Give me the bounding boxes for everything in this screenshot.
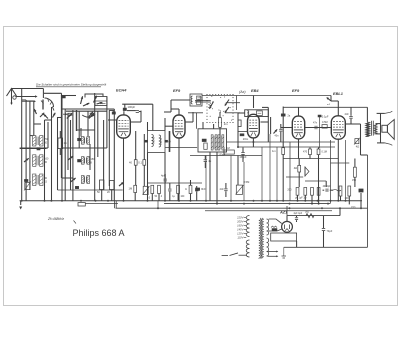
IF transformer T3 frame — [245, 110, 269, 117]
resistor R25 diag — [354, 138, 360, 149]
svg-text:145V: 145V — [237, 228, 243, 232]
label tube V4 EF9 — [292, 88, 300, 93]
wire T4 bottom — [210, 152, 217, 204]
svg-text:1kΩ: 1kΩ — [305, 212, 309, 214]
speaker LS1 cone — [387, 120, 394, 140]
wire arrow a2 — [22, 100, 36, 102]
wire v 244r — [243, 162, 245, 201]
wire v 345.5 — [345, 140, 347, 201]
wire B+ drop — [339, 208, 341, 215]
capacitor C31 blob — [37, 148, 40, 150]
trimmer arrow S2a — [68, 156, 73, 160]
svg-text:4000pF: 4000pF — [323, 185, 332, 188]
wire long anode rail — [283, 107, 367, 122]
resistor R6 w label — [138, 134, 145, 186]
svg-text:1m: 1m — [272, 149, 276, 153]
wire AZ1 bottom — [286, 231, 288, 234]
wire block1 horizontals — [22, 100, 52, 148]
svg-text:30: 30 — [44, 161, 47, 164]
wire V5 plate — [345, 124, 360, 155]
IF transformer T2 frame — [148, 131, 166, 153]
wire h142 — [227, 141, 335, 143]
svg-text:AJ20: AJ20 — [198, 99, 204, 102]
tube V6 AZ1 — [282, 221, 293, 233]
svg-text:0.1M: 0.1M — [322, 151, 327, 154]
wire v 330.5 — [331, 140, 350, 204]
wire bus 3 — [116, 207, 368, 209]
resistor R11 — [177, 185, 180, 201]
wire bus to AZ1 — [286, 206, 288, 216]
power transformer T6 core — [259, 218, 263, 258]
svg-text:4μ: 4μ — [208, 159, 211, 163]
wire V4 bottom — [298, 139, 300, 159]
wire V1 top cap — [122, 104, 153, 130]
resistor R9 — [151, 185, 154, 201]
svg-text:150: 150 — [352, 179, 357, 182]
svg-text:15: 15 — [44, 181, 47, 184]
svg-text:70μF: 70μF — [327, 230, 333, 233]
wire V1 bottom — [123, 138, 125, 201]
svg-text:0.3: 0.3 — [147, 197, 151, 199]
switch blade det — [274, 129, 278, 133]
resistor R14 1M — [224, 146, 234, 154]
trimmer C1 arrow — [24, 158, 29, 162]
wire bus 2a — [85, 202, 118, 204]
fuse F1 on bus — [78, 203, 85, 206]
coil L5 — [82, 157, 90, 165]
wire T2 bottom leads — [148, 153, 166, 201]
junction dots buses — [21, 200, 362, 209]
wire bus 4 — [205, 210, 332, 212]
resistor R27 — [339, 186, 342, 201]
wire T3 leads — [238, 113, 245, 147]
coil T2 secondary — [159, 135, 163, 147]
wire shield double h — [195, 100, 211, 102]
capacitor C23 dark — [359, 189, 363, 208]
coil T3 — [247, 111, 249, 116]
wire V3 bottom — [237, 132, 254, 149]
wire v270 up — [270, 117, 272, 134]
trimmer arrow S2c — [71, 178, 76, 182]
wire couple — [305, 127, 332, 129]
wire T4 top stubs — [203, 122, 214, 129]
wire speaker bottom — [376, 134, 385, 143]
wire coupling arrow — [16, 95, 38, 97]
wire block1 heavy junction — [20, 147, 47, 149]
svg-text:1μ: 1μ — [172, 196, 175, 198]
resistor R21 row — [304, 188, 307, 201]
capacitor C29 blob — [78, 159, 81, 162]
svg-text:40n: 40n — [275, 134, 280, 137]
capacitor C12 4pF — [161, 174, 167, 184]
svg-text:50: 50 — [97, 191, 100, 194]
svg-text:0.5M: 0.5M — [244, 180, 250, 184]
svg-text:100: 100 — [181, 196, 186, 198]
resistor R12 — [189, 180, 192, 201]
label tube V6 AZ1 — [279, 210, 287, 215]
svg-text:8nF: 8nF — [201, 187, 206, 191]
coil T4 b — [218, 135, 224, 150]
capacitor C26 70uF — [322, 216, 333, 248]
label 100pF — [128, 105, 136, 109]
wire pair v236 — [236, 96, 238, 111]
capacitor C16 dark — [196, 187, 207, 191]
wire heater loop box — [271, 233, 297, 241]
svg-text:0.5M: 0.5M — [322, 121, 328, 124]
resistor R26 — [352, 159, 357, 188]
tube V3 EB4 — [248, 114, 260, 138]
svg-text:Philips 668 A: Philips 668 A — [73, 228, 125, 238]
capacitor C28 blob — [78, 138, 81, 141]
svg-text:125V: 125V — [237, 232, 243, 236]
switch S1 blades — [34, 109, 55, 118]
label 20m — [243, 137, 249, 141]
power transformer T6 primary lower — [246, 240, 249, 257]
wire h155 — [195, 155, 238, 157]
wire ground bus 1 — [20, 200, 362, 202]
wire v 270 — [269, 134, 271, 201]
svg-text:200V: 200V — [236, 220, 243, 224]
wire heater leads — [268, 251, 279, 258]
label L1 vals — [44, 138, 49, 145]
wire top to V5 — [331, 96, 338, 116]
svg-text:2m: 2m — [224, 122, 229, 126]
resistor R30 — [238, 120, 241, 127]
capacitor C22 4nF — [345, 112, 353, 124]
wire mains lead — [222, 255, 228, 257]
switch S3 blade — [209, 102, 214, 110]
capacitor C33 blob — [24, 179, 28, 181]
resistor R22 row — [311, 188, 314, 205]
variable capacitor C3 — [89, 113, 95, 118]
switch S4 blade b — [225, 107, 229, 113]
wire det h1 — [190, 155, 262, 157]
variable capacitor C2 — [63, 113, 72, 118]
capacitor C34 blob — [202, 139, 206, 142]
switch S6 anode blade — [326, 97, 331, 106]
wire T2 top leads — [148, 118, 166, 131]
capacitor C14 — [275, 124, 283, 142]
annotation note text top — [36, 83, 106, 87]
wire top long bus — [202, 95, 331, 97]
wire v 277 — [276, 147, 278, 201]
power transformer taps — [236, 216, 246, 240]
wire bus 2b — [164, 203, 330, 205]
switch S4 blade a — [225, 100, 229, 107]
svg-text:Zf=468kHz: Zf=468kHz — [47, 217, 64, 221]
capacitor C30 blob — [281, 114, 291, 118]
svg-text:470: 470 — [303, 151, 308, 154]
svg-text:(Ax): (Ax) — [239, 90, 246, 94]
IF transformer T4 frame — [198, 129, 227, 152]
title Philips 668 A — [73, 228, 125, 238]
svg-text:Die Schalter sind in gezeichne: Die Schalter sind in gezeichneter Stellu… — [36, 83, 106, 87]
svg-text:4Ω: 4Ω — [356, 145, 359, 149]
wire AZ1 top — [286, 216, 288, 222]
svg-text:50: 50 — [44, 142, 47, 145]
potentiometer R1 box — [24, 182, 31, 191]
labels V4 row — [295, 197, 357, 209]
label tube V1 ECH4 — [116, 88, 127, 93]
wire block1 verticals — [26, 95, 61, 201]
resistor R4 — [107, 181, 114, 201]
wire block2 verticals — [62, 93, 114, 201]
svg-text:4nF: 4nF — [345, 113, 350, 116]
antenna — [7, 89, 17, 106]
capacitor C21 — [313, 122, 318, 130]
switch S2 arc lower — [82, 112, 95, 117]
svg-text:100pF: 100pF — [128, 105, 136, 109]
power transformer T6 secondary heater — [267, 238, 269, 256]
wire HT lead mid — [269, 229, 282, 231]
coil L4 — [82, 137, 90, 145]
wire B+ rail — [287, 215, 340, 217]
capacitor C25 4uF — [295, 216, 298, 222]
wire v 231 — [230, 156, 232, 201]
svg-text:47n: 47n — [313, 122, 318, 125]
wire antenna feed — [12, 89, 44, 94]
svg-text:1M: 1M — [226, 146, 230, 150]
wire h181 — [305, 181, 326, 187]
capacitor C8 dark — [165, 140, 168, 142]
wire V1 left grid — [108, 119, 117, 121]
svg-text:50: 50 — [155, 196, 158, 198]
wire row h — [147, 182, 202, 184]
capacitor C10 — [168, 183, 171, 201]
svg-text:2a: 2a — [288, 115, 291, 118]
wire left down-lead — [21, 89, 23, 201]
svg-text:Ω: Ω — [185, 189, 187, 191]
wire right rail — [361, 155, 368, 247]
coil L3 antenna — [33, 174, 43, 186]
capacitor C18 01uF — [318, 115, 329, 119]
capacitor C7 dark — [145, 140, 148, 142]
coil T2 primary — [152, 135, 156, 147]
svg-text:110V: 110V — [237, 236, 243, 240]
switch S5 mains — [230, 253, 247, 256]
tube V4 EF9 — [292, 116, 304, 139]
wire V1 plate right — [130, 111, 141, 122]
svg-text:μF 1μF 1Ω: μF 1μF 1Ω — [295, 197, 307, 200]
wire h177 — [286, 176, 303, 178]
resistor R17 — [303, 148, 311, 159]
output transformer T5 core — [372, 121, 374, 136]
wire top to V3 — [253, 96, 255, 109]
wire det v1 — [237, 156, 239, 186]
terminal box K1 — [95, 97, 107, 106]
svg-text:ECH4: ECH4 — [116, 88, 127, 93]
switch S1 wafer arc — [41, 98, 54, 111]
wire bus drop pair — [115, 201, 117, 208]
trimmer arrow S2d — [119, 182, 124, 186]
wire V4 top — [298, 107, 300, 116]
wire h156 right — [238, 146, 254, 148]
label T2 values — [0, 0, 1, 1]
svg-text:NFG: NFG — [198, 96, 203, 99]
resistor R5 w label — [129, 131, 137, 185]
resistor R19 — [298, 159, 301, 188]
resistor R2 — [58, 131, 67, 155]
ground mark AZ1 — [282, 247, 287, 258]
label L2 vals — [44, 158, 49, 165]
capacitor C13 150pF — [239, 148, 247, 163]
svg-text:220V: 220V — [236, 216, 243, 220]
labels mid row — [147, 189, 187, 199]
label 150pF box — [218, 153, 225, 156]
svg-text:m2: m2 — [327, 104, 331, 106]
resistor R16 — [272, 107, 285, 201]
svg-text:AZ1: AZ1 — [279, 210, 287, 215]
label U5 — [294, 166, 298, 170]
wire V5 bottom — [337, 139, 339, 201]
svg-text:EF9: EF9 — [173, 88, 181, 93]
electrolytic C19 tri — [305, 167, 309, 177]
label tube V5 EBL1 — [333, 91, 343, 96]
svg-text:4μF 4μF: 4μF 4μF — [294, 213, 303, 215]
label 4uF pair — [294, 213, 303, 215]
capacitor C15 — [204, 156, 212, 169]
label Zf 468kHz note — [47, 217, 76, 224]
capacitor C6 — [127, 111, 141, 113]
resistor R3 — [97, 180, 104, 201]
shield dotted region — [206, 94, 233, 123]
wire block2 horizontals — [58, 94, 123, 190]
capacitor C11 — [195, 186, 198, 201]
resistor R20 row — [296, 188, 299, 201]
wire V3 right — [261, 107, 269, 142]
wire bottom rail — [284, 241, 368, 247]
capacitor C32 blob — [240, 134, 244, 136]
svg-text:4: 4 — [161, 196, 163, 198]
electrolytic C9 bar — [168, 131, 170, 152]
tube V5 EBL1 — [331, 116, 345, 139]
tube V2 EF9 — [173, 115, 185, 138]
svg-text:0.1: 0.1 — [138, 161, 142, 165]
wire v 158b — [157, 201, 159, 208]
wire mid h 147 — [165, 146, 335, 149]
label NFG box — [198, 96, 204, 102]
capacitor C5 grid blob — [123, 104, 126, 110]
wire S1 box top — [43, 93, 61, 98]
label tube V2 EF9 — [173, 88, 181, 93]
svg-text:4nF: 4nF — [220, 188, 225, 191]
svg-text:20: 20 — [107, 191, 110, 194]
label tube V3 EB4 — [251, 88, 259, 93]
resistor R18 — [317, 148, 327, 201]
svg-text:160V: 160V — [237, 224, 243, 228]
label L5 vals — [91, 158, 96, 165]
box T3 cap — [257, 111, 263, 116]
wire v 206 — [205, 156, 207, 201]
wire HT lead top — [269, 219, 282, 224]
resistor R10 — [158, 185, 161, 201]
output transformer T5 primary — [366, 122, 371, 137]
svg-text:4Ω: 4Ω — [294, 166, 298, 170]
power transformer T6 secondary HT — [267, 219, 269, 235]
ground chassis arrow — [19, 201, 22, 210]
switch S2 blades upper — [81, 96, 103, 106]
svg-text:EBL1: EBL1 — [333, 91, 343, 96]
potentiometer R15 volume — [236, 180, 250, 194]
power transformer T6 primary upper — [246, 216, 249, 237]
resistor R31 in box — [204, 143, 207, 149]
speaker LS1 magnet — [382, 125, 388, 132]
wire V2 left — [165, 125, 173, 127]
resistor R23 row — [317, 188, 320, 205]
wire y102 right — [226, 102, 240, 104]
resistor R28 — [345, 186, 351, 204]
wire V2 bottom — [178, 138, 180, 201]
svg-text:EB4: EB4 — [251, 88, 259, 93]
resistor R13 2m — [219, 112, 229, 147]
capacitor C20 4000pF — [323, 185, 342, 192]
wire C18 v — [319, 116, 321, 148]
wire grid V4 — [281, 127, 293, 129]
oscillator coil box T1 — [190, 94, 202, 106]
wire speaker top — [376, 113, 385, 143]
label node Ax — [239, 90, 246, 94]
coil T4 a — [211, 135, 217, 150]
svg-text:700Hz: 700Hz — [160, 137, 163, 145]
wire osc box left — [164, 100, 190, 112]
output transformer T5 secondary — [374, 124, 377, 134]
wire speaker hooks — [385, 111, 393, 145]
svg-text:8: 8 — [91, 162, 93, 165]
capacitor C4 dark — [75, 186, 78, 188]
wire v290 — [289, 142, 291, 201]
resistor R7 — [129, 185, 137, 201]
capacitor C27 blob — [62, 96, 66, 98]
svg-text:40: 40 — [129, 161, 132, 165]
wire v 262 — [261, 147, 263, 201]
wire v 224 — [223, 147, 225, 156]
potentiometer R8 — [143, 186, 150, 194]
resistor R24 05M — [322, 121, 328, 128]
resistor R29 field zig — [305, 212, 314, 218]
svg-text:20m: 20m — [243, 137, 249, 141]
wire shield h113 — [188, 113, 240, 129]
coil L6 — [82, 176, 90, 184]
svg-text:1M: 1M — [129, 187, 133, 191]
tube V1 ECH4 — [117, 115, 131, 138]
capacitor C17 — [220, 183, 228, 197]
choke L7 blob — [271, 226, 277, 231]
capacitor C5b blob — [109, 110, 116, 114]
wire h160 — [283, 158, 338, 160]
coil L1 antenna — [33, 136, 43, 146]
label 200 — [287, 189, 292, 192]
wire V2 plate — [185, 112, 193, 122]
wire V2 top — [171, 109, 179, 115]
svg-text:700Hz: 700Hz — [153, 136, 156, 144]
coil L2 antenna — [33, 155, 43, 167]
label L3 vals — [44, 177, 47, 184]
svg-text:0.1μF: 0.1μF — [322, 115, 329, 119]
svg-text:EF9: EF9 — [292, 88, 300, 93]
